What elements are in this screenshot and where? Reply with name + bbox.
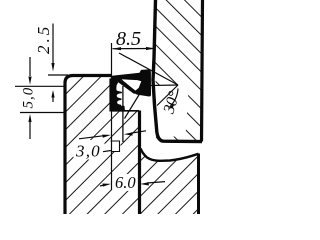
- clearing box on extension line: [110, 141, 121, 153]
- leader from text to box: [103, 151, 111, 152]
- dimension 2.5 line and arrows: [51, 24, 54, 103]
- svg-text:2.5: 2.5: [34, 24, 53, 54]
- svg-text:6.0: 6.0: [115, 173, 136, 192]
- 30 degree reference line S2: [157, 85, 178, 106]
- seal inner lip: [118, 81, 134, 93]
- sash groove left wall (thin, mostly hidden by seal): [111, 76, 113, 111]
- sash profile hatching (left block): [65, 76, 140, 215]
- sash step surface: [112, 110, 140, 112]
- extension line from seal: [111, 43, 113, 75]
- svg-text:8.5: 8.5: [116, 28, 141, 50]
- 30 degree reference line S1: [119, 53, 178, 85]
- stray hatch line through gap: [125, 94, 140, 119]
- dimension 3,0 arrows: [79, 131, 146, 152]
- dim line: [113, 48, 155, 50]
- sash right edge (thick): [138, 111, 141, 215]
- bottom block right edge: [197, 154, 200, 215]
- extension line B right (y=85.5): [141, 84, 179, 87]
- seal stem with scalloped right edge and bottom foot: [109, 79, 125, 112]
- 30 degree arc arrowhead: [168, 104, 174, 109]
- seal profile (black gasket): bar and hook with white pocket: [109, 69, 151, 111]
- frame band left face: [153, 0, 202, 142]
- svg-text:5,0: 5,0: [21, 87, 37, 109]
- clearing for 3,0 text: [74, 140, 105, 160]
- svg-text:3,0: 3,0: [75, 142, 101, 161]
- extension line / groove right wall x=122.9: [122, 86, 124, 142]
- frame band hatching (right): [155, 0, 203, 141]
- extension line A (sash top, y=75): [48, 74, 68, 76]
- 30 degree arc: [170, 89, 179, 108]
- bottom block top edge (wavy break): [141, 149, 199, 161]
- bottom block hatching: [141, 152, 199, 214]
- extension line B left (y=86): [15, 85, 64, 87]
- dimension 6.0 arrows: [100, 182, 165, 187]
- clearing for 30-degree label: [156, 85, 189, 137]
- extension line C (y=112.5): [20, 112, 64, 114]
- clearing box outline: [111, 141, 120, 152]
- clearing for 6.0 text: [112, 174, 139, 191]
- extension line x=111.5 lower: [111, 112, 113, 191]
- sash outline (left block): [65, 76, 112, 215]
- dimension 8.5: [112, 43, 156, 75]
- frame band right edge: [202, 0, 203, 142]
- dimension 5,0 line and arrows: [28, 57, 31, 139]
